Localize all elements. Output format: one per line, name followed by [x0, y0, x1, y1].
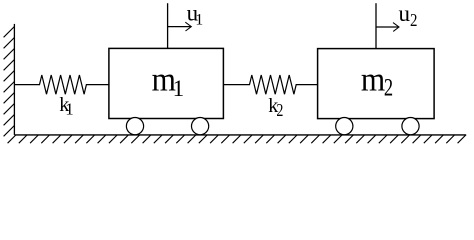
input stem u1 (vertical line into m1): [167, 3, 169, 48]
wheel 1 of m1: [126, 118, 143, 135]
svg-text:2: 2: [276, 102, 283, 121]
wheel 2 of m1: [192, 118, 209, 135]
svg-text:2: 2: [410, 11, 417, 30]
svg-text:2: 2: [384, 73, 393, 101]
wall hatching: [4, 27, 15, 137]
svg-text:1: 1: [65, 100, 74, 119]
svg-text:1: 1: [173, 76, 185, 101]
mass m1 (cart body): [109, 48, 223, 118]
svg-text:m: m: [361, 61, 385, 98]
ground hatching: [8, 135, 466, 143]
svg-text:u: u: [399, 1, 411, 26]
force arrow u1: [168, 26, 191, 28]
svg-text:1: 1: [195, 12, 203, 29]
ground (floor line): [14, 134, 466, 136]
mass m2 (cart body): [318, 49, 435, 119]
wheel 1 of m2: [336, 118, 353, 135]
input stem u2 (vertical line into m2): [375, 3, 377, 48]
wheel 2 of m2: [402, 118, 419, 135]
spring k1 (wall to mass m1): [14, 75, 108, 94]
force arrow u2: [376, 26, 398, 28]
wall (left fixed support): [13, 24, 15, 135]
spring k2 (mass m1 to mass m2): [223, 75, 317, 94]
